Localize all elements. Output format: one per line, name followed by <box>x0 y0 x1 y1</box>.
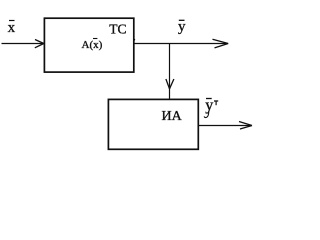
input wire <box>2 43 44 45</box>
output wire y-gamma <box>198 125 251 127</box>
output arrowhead y-gamma <box>239 122 252 126</box>
stray mark on box edge <box>133 39 135 41</box>
svg-text:x: x <box>8 20 16 36</box>
block TC (upper box) <box>44 18 133 72</box>
output arrowhead y <box>213 39 229 43</box>
output wire y <box>134 43 228 45</box>
down arrowhead <box>166 79 170 89</box>
svg-text:A(x): A(x) <box>82 39 103 51</box>
overbar of x in A(x) <box>93 38 97 40</box>
input arrowhead <box>35 40 44 44</box>
svg-text:y: y <box>178 19 186 35</box>
svg-text:ИА: ИА <box>162 109 183 124</box>
svg-text:ТС: ТС <box>109 22 126 37</box>
branch wire down to IA <box>169 44 171 99</box>
block IA (lower box) <box>108 99 198 149</box>
